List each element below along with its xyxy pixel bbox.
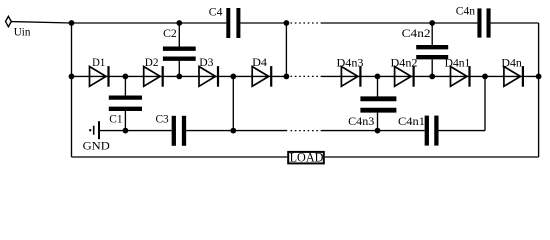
node diode row break (left of ellipsis): [284, 74, 290, 80]
node D4n2-D4n1 junction (C4n2 tap): [429, 74, 435, 80]
capacitor C4n3 lead lower: [377, 112, 379, 130]
capacitor C3: [174, 116, 184, 146]
wire mid rail: ellipsis to C4n1 left plate: [322, 130, 425, 132]
node mid rail / link junction: [230, 128, 236, 134]
label C4n2: [402, 26, 431, 40]
svg-text:C4n2: C4n2: [402, 26, 431, 40]
svg-text:C1: C1: [109, 111, 122, 125]
label D4: [252, 55, 267, 69]
label D4n3: [337, 55, 364, 69]
capacitor C4n: [479, 8, 488, 37]
wire diode row right section (through D4n3-D4n): [322, 75, 539, 77]
node D2-D3 junction (C2 tap): [176, 74, 182, 80]
svg-text:LOAD: LOAD: [290, 150, 324, 165]
label D3: [199, 55, 213, 69]
diode D4n2: [395, 66, 414, 87]
node D4n1-D4n junction: [482, 74, 488, 80]
wire top rail: ellipsis to C4n left plate: [322, 22, 477, 24]
label C4n3: [348, 114, 374, 128]
capacitor C4n2 lead lower: [431, 59, 433, 76]
node mid rail / C1 junction: [123, 128, 129, 134]
wire bottom rail: LOAD to right vertical: [325, 156, 539, 158]
svg-text:D2: D2: [145, 55, 159, 69]
node D1-D2 junction (C1 tap): [123, 74, 129, 80]
diode D4n3: [341, 66, 360, 87]
capacitor C4n3 lead upper: [377, 76, 379, 96]
wire mid rail ellipsis (dotted continuation): [291, 130, 323, 132]
wire mid rail: ground to C3 left plate: [100, 130, 172, 132]
label D4n1: [445, 55, 471, 69]
diode D4n: [504, 66, 523, 87]
svg-text:D4n: D4n: [501, 55, 521, 69]
capacitor C4n2: [416, 47, 448, 57]
label D1: [92, 55, 105, 69]
node top rail break (left of ellipsis): [284, 20, 290, 26]
wire bottom rail: left vertical to LOAD: [72, 156, 288, 158]
diode D2: [144, 66, 163, 87]
label LOAD: [290, 150, 324, 165]
label D4n2: [391, 55, 418, 69]
capacitor C2 lead upper: [178, 23, 180, 47]
capacitor C1: [109, 98, 142, 109]
capacitor C4n1: [427, 116, 437, 146]
svg-text:GND: GND: [83, 139, 111, 153]
svg-text:C4: C4: [209, 4, 223, 18]
node D4n3-D4n2 junction (C4n3 tap): [375, 74, 381, 80]
svg-text:C4n1: C4n1: [398, 114, 425, 128]
label Uin: [14, 25, 31, 39]
label C4n: [456, 4, 475, 18]
diode D1: [90, 66, 109, 87]
wire mid rail: C4n1 right plate to right link: [439, 130, 486, 132]
wire mid rail: C3 right plate to break: [186, 130, 287, 132]
diode D3: [199, 66, 218, 87]
wire top rail: C4 right plate to break: [240, 22, 286, 24]
capacitor C2 lead lower: [178, 61, 180, 77]
wire vertical link D3-D4 junction to mid rail: [232, 76, 234, 130]
ground symbol: [90, 121, 99, 139]
svg-text:C3: C3: [156, 111, 169, 125]
wire diode row ellipsis (dotted continuation): [291, 75, 323, 77]
svg-text:C4n3: C4n3: [348, 114, 374, 128]
capacitor C2: [163, 49, 196, 59]
label D4n: [501, 55, 521, 69]
label C4n1: [398, 114, 425, 128]
capacitor C1 lead upper: [124, 76, 126, 95]
node diode row / left vertical junction: [69, 74, 75, 80]
svg-text:D4n3: D4n3: [337, 55, 364, 69]
wire Uin lead (sloped): [11, 22, 71, 23]
label C4: [209, 4, 223, 18]
capacitor C1 lead lower: [124, 111, 126, 131]
label C2: [163, 26, 177, 40]
svg-text:D3: D3: [199, 55, 213, 69]
svg-text:D4n2: D4n2: [391, 55, 418, 69]
node diode row / right vertical junction: [536, 74, 542, 80]
input terminal Uin (diamond): [6, 16, 12, 26]
label C1: [109, 111, 122, 125]
capacitor C4n2 lead upper: [431, 23, 433, 45]
label GND: [83, 139, 111, 153]
diode D4: [252, 66, 271, 87]
wire top rail: C4n right plate to right corner: [491, 22, 539, 24]
wire right vertical (output column, top rail to bottom rail): [538, 23, 540, 157]
svg-text:D4: D4: [252, 55, 267, 69]
node top rail / left vertical junction: [69, 20, 75, 26]
svg-text:D1: D1: [92, 55, 105, 69]
capacitor C4: [228, 8, 238, 38]
node D3-D4 junction: [230, 74, 236, 80]
wire vertical link top rail to diode row at break: [285, 23, 287, 76]
wire vertical link D4n1-D4n junction to mid rail end: [484, 76, 486, 130]
svg-text:D4n1: D4n1: [445, 55, 471, 69]
node top rail / C2 junction: [176, 20, 182, 26]
node mid rail / C4n3 junction: [375, 128, 381, 134]
svg-text:Uin: Uin: [14, 25, 31, 39]
label C3: [156, 111, 169, 125]
wire top rail ellipsis (dotted continuation): [291, 22, 323, 24]
wire left vertical (Uin column, top rail to bottom rail): [71, 23, 73, 157]
load resistor LOAD box: [288, 152, 324, 164]
diode D4n1: [451, 66, 470, 87]
svg-text:C4n: C4n: [456, 4, 475, 18]
capacitor C4n3: [360, 99, 396, 110]
wire diode row left section (through D1-D4): [72, 75, 287, 77]
node top rail / C4n2 junction: [429, 20, 435, 26]
svg-text:C2: C2: [163, 26, 177, 40]
label D2: [145, 55, 159, 69]
wire top rail: Uin to C4 left plate: [72, 22, 227, 24]
